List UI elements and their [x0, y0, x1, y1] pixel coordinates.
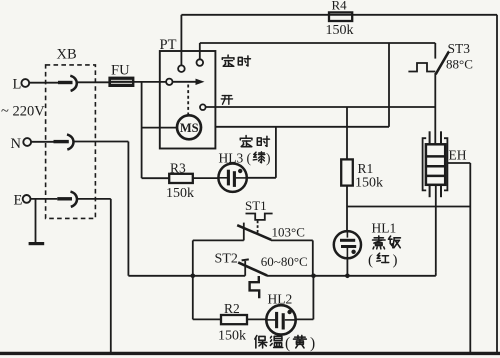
- svg-text:150k: 150k: [326, 23, 354, 38]
- svg-text:R1: R1: [358, 161, 374, 176]
- svg-text:R4: R4: [332, 0, 348, 13]
- svg-text:N: N: [11, 136, 22, 152]
- svg-text:88°C: 88°C: [446, 56, 473, 71]
- svg-text:): ): [266, 151, 271, 166]
- svg-text:HL2: HL2: [268, 292, 293, 307]
- svg-text:150k: 150k: [218, 329, 246, 344]
- svg-text:R2: R2: [224, 301, 240, 316]
- svg-text:103°C: 103°C: [272, 225, 305, 240]
- svg-text:ST1: ST1: [245, 198, 267, 213]
- svg-text:150k: 150k: [355, 176, 383, 191]
- svg-text:E: E: [14, 193, 23, 209]
- svg-text:(: (: [247, 151, 252, 166]
- svg-text:R3: R3: [170, 161, 186, 176]
- svg-text:150k: 150k: [166, 186, 194, 201]
- svg-text:FU: FU: [111, 63, 130, 79]
- svg-text:(: (: [368, 253, 373, 269]
- svg-text:ST2: ST2: [215, 252, 238, 267]
- svg-text:L: L: [13, 77, 22, 93]
- svg-text:EH: EH: [449, 148, 467, 163]
- svg-text:60~80°C: 60~80°C: [261, 254, 308, 269]
- svg-text:HL1: HL1: [372, 221, 397, 236]
- svg-text:PT: PT: [160, 37, 177, 53]
- svg-text:MS: MS: [180, 121, 199, 135]
- svg-text:~ 220V: ~ 220V: [1, 104, 45, 120]
- svg-text:XB: XB: [57, 47, 77, 63]
- svg-text:): ): [310, 335, 315, 352]
- svg-text:ST3: ST3: [448, 41, 471, 56]
- svg-text:(: (: [285, 335, 290, 352]
- svg-text:HL3: HL3: [219, 151, 244, 166]
- svg-text:): ): [393, 253, 398, 269]
